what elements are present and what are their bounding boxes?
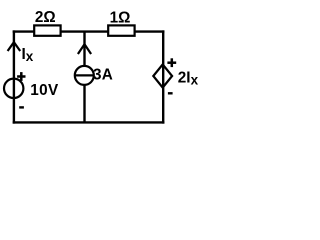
wire bottom rail [13, 121, 165, 123]
arrow 3A direction [78, 44, 91, 54]
resistor 1ohm [108, 25, 134, 35]
plus sign 10V [17, 72, 25, 81]
wire top rail [13, 30, 165, 32]
plus sign 2Ix [167, 58, 176, 67]
svg-text:3A: 3A [93, 66, 113, 83]
wire right branch [162, 30, 164, 123]
svg-text:Ix: Ix [22, 46, 34, 64]
dependent source 2Ix [153, 64, 172, 87]
minus sign 10V [19, 106, 24, 108]
wire middle branch lower [83, 85, 85, 123]
voltage source 10V [4, 79, 23, 98]
resistor 2ohm [34, 25, 60, 35]
wire middle branch upper [83, 32, 85, 66]
current arrow Ix [8, 42, 21, 51]
svg-text:2Ix: 2Ix [178, 70, 199, 88]
wire left branch [13, 30, 15, 123]
svg-text:1Ω: 1Ω [110, 9, 131, 26]
svg-text:10V: 10V [30, 82, 59, 99]
current source 3A [75, 66, 94, 85]
svg-text:2Ω: 2Ω [35, 9, 56, 26]
minus sign 2Ix [168, 92, 173, 94]
